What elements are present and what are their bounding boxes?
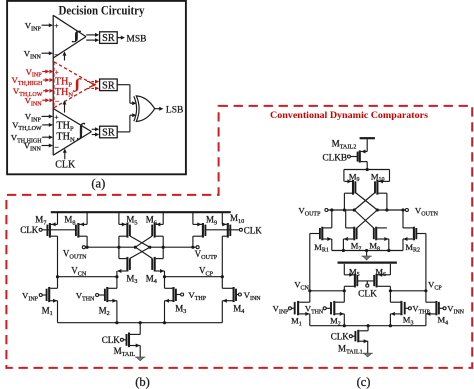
node CLK input M5/M6 gates bbox=[357, 281, 377, 300]
transistor M2 (c) (NMOS input V_THN) bbox=[326, 291, 344, 326]
node V_INN input U2 bbox=[25, 95, 54, 107]
svg-text:(b): (b) bbox=[135, 375, 150, 389]
comparator U3 (bottom, LSB path) bbox=[53, 109, 91, 156]
VDD bar input stage (c) bbox=[338, 262, 397, 264]
transistor M_TAIL2 (PMOS tail, CLKB) bbox=[350, 150, 367, 170]
svg-text:–: – bbox=[54, 142, 59, 151]
transistor M3 (NMOS input V_THP) bbox=[165, 277, 181, 323]
node V_INP input (b) bbox=[22, 290, 42, 302]
svg-text:CLK: CLK bbox=[358, 290, 377, 300]
wire U1 to U4 double arrows bbox=[86, 33, 99, 42]
svg-text:MSB: MSB bbox=[126, 34, 146, 44]
transistor M1 (NMOS input V_INP) bbox=[42, 277, 57, 323]
transistor M2 (NMOS input V_THN) bbox=[99, 277, 117, 323]
svg-text:SR: SR bbox=[102, 33, 115, 44]
transistor M7 (c) (NMOS latch) bbox=[343, 210, 356, 251]
comparator U2 (middle, red dashed) bbox=[54, 62, 97, 108]
node V_TH,LOW input U2 bbox=[13, 86, 54, 98]
svg-text:SR: SR bbox=[102, 128, 115, 139]
clock arrow into U2 bbox=[63, 100, 67, 112]
node V_INN input (b) bbox=[238, 290, 261, 302]
node V_INP input U3 bbox=[25, 112, 53, 124]
node V_CN rail (c) bbox=[294, 234, 346, 303]
transistor M1 (c) (NMOS input V_INP) bbox=[292, 301, 310, 326]
panel (a) Decision Circuitry box bbox=[7, 1, 186, 174]
node V_TH,LOW input U3 bbox=[12, 120, 53, 132]
wire common source node (c) bbox=[310, 324, 426, 327]
transistor M3 (c) (NMOS input V_THP) bbox=[390, 291, 408, 326]
XOR gate U7 bbox=[134, 96, 155, 122]
svg-text:LSB: LSB bbox=[166, 105, 183, 115]
node V_CN wire bbox=[56, 266, 119, 279]
wire U6 to XOR bbox=[117, 131, 130, 133]
svg-text:–: – bbox=[54, 49, 59, 58]
svg-text:CLK: CLK bbox=[331, 332, 350, 342]
wire input bus vertical line bbox=[52, 15, 54, 155]
svg-text:CLK: CLK bbox=[244, 225, 263, 235]
node V_INP input U1 bbox=[25, 20, 53, 32]
svg-text:CLKB: CLKB bbox=[322, 153, 347, 163]
svg-text:SR: SR bbox=[102, 80, 115, 91]
node V_OUTN wire (c) bbox=[377, 206, 438, 218]
ground symbol (b) bbox=[135, 356, 145, 358]
svg-text:CLK: CLK bbox=[20, 225, 39, 235]
node V_OUTN wire and terminal bbox=[63, 246, 135, 261]
node CLK input right (b) bbox=[205, 225, 262, 235]
node CLKB input bbox=[322, 153, 350, 163]
svg-text:+: + bbox=[54, 21, 58, 30]
node MSB output bbox=[117, 34, 146, 44]
ground symbol latch (c) bbox=[362, 251, 372, 261]
transistor M_R1 (NMOS reset) bbox=[310, 210, 332, 251]
ground symbol tail (c) bbox=[363, 352, 373, 354]
transistor M6 (c) (PMOS precharge V_CP) bbox=[374, 264, 390, 291]
transistor M_TAIL (NMOS tail, CLK) bbox=[123, 323, 140, 358]
comparator U1 (top, MSB path) bbox=[53, 15, 86, 58]
svg-text:(c): (c) bbox=[357, 375, 371, 389]
transistor M_TAIL1 (NMOS tail, CLK) bbox=[352, 326, 368, 354]
transistor M8 (c) (NMOS latch) bbox=[374, 227, 389, 251]
wire latch ground rail (c) bbox=[332, 249, 403, 252]
svg-text:CLK: CLK bbox=[102, 335, 121, 345]
node V_THP input (c) bbox=[408, 304, 430, 316]
svg-text:Conventional Dynamic Comparato: Conventional Dynamic Comparators bbox=[270, 110, 428, 121]
node CLK tail input (c) bbox=[331, 332, 353, 342]
transistor M_R2 (NMOS reset) bbox=[403, 210, 426, 251]
SR latch U4 (top) bbox=[100, 32, 118, 44]
node V_OUTP wire (c) bbox=[298, 206, 354, 218]
node V_TH,HIGH input U3 bbox=[11, 132, 53, 144]
svg-text:(a): (a) bbox=[91, 177, 105, 191]
node V_INN input U3 bbox=[24, 141, 53, 153]
node V_THN input (c) bbox=[305, 304, 326, 316]
VDD rail (b) bbox=[51, 211, 231, 213]
wire U2 to U5 double arrows red bbox=[87, 80, 99, 91]
node LSB output bbox=[155, 105, 184, 115]
node V_INP input U2 bbox=[26, 67, 54, 79]
cross-coupling X wires and diamond (b) bbox=[130, 236, 152, 258]
transistor M6 (PMOS cross-coupled) bbox=[152, 212, 163, 247]
transistor M5 (c) (PMOS precharge V_CN) bbox=[344, 264, 357, 291]
node CLK input left (b) bbox=[20, 225, 76, 235]
transistor M4 (NMOS cross-coupled) bbox=[152, 247, 164, 277]
red dashed boundary box bbox=[6, 106, 472, 368]
node V_INN input (c) bbox=[443, 304, 465, 316]
wire common source node (b) bbox=[58, 321, 223, 324]
node V_INN input U1 bbox=[24, 48, 53, 60]
node V_THN input (b) bbox=[76, 290, 99, 302]
transistor M10 (c) (PMOS latch) bbox=[375, 170, 390, 211]
node V_THP input (b) bbox=[181, 290, 207, 302]
transistor M10 (PMOS, precharge V_CP) bbox=[222, 212, 230, 276]
SR latch U5 (middle) bbox=[100, 79, 118, 91]
transistor M4 (c) (NMOS input V_INN) bbox=[426, 301, 443, 326]
transistor M4 (NMOS input V_INN) bbox=[222, 277, 238, 323]
VDD bar top (c) bbox=[360, 137, 375, 139]
SR latch U6 (bottom) bbox=[100, 126, 118, 138]
transistor M9 (c) (PMOS latch) bbox=[344, 170, 356, 211]
transistor M7 (PMOS, CLK precharge V_CN) bbox=[47, 212, 57, 276]
cross-coupling X wires and diamond (c) bbox=[353, 193, 379, 229]
transistor M5 (PMOS cross-coupled) bbox=[119, 212, 130, 247]
transistor M9 (PMOS, precharge V_OUTP) bbox=[193, 212, 206, 247]
svg-text:–: – bbox=[54, 97, 59, 105]
wire VDD stem to M_TAIL2 bbox=[366, 139, 368, 151]
svg-text:CLK: CLK bbox=[55, 160, 76, 171]
node V_INP input (c) bbox=[273, 304, 292, 316]
node V_CP rail (c) bbox=[389, 234, 443, 303]
clock arrow CLK into U3 bbox=[63, 149, 67, 160]
transistor M8 (PMOS, CLK precharge V_OUTN) bbox=[76, 212, 87, 247]
transistor M3 (NMOS cross-coupled) bbox=[117, 247, 130, 277]
clock arrow into U1 bbox=[63, 51, 67, 60]
wire U3 to U6 double arrows bbox=[92, 127, 100, 136]
wire U5 to XOR bbox=[117, 84, 130, 86]
wire latch tail node (c) bbox=[344, 168, 390, 171]
svg-text:Decision Circuitry: Decision Circuitry bbox=[59, 3, 145, 17]
node V_OUTP wire and terminal bbox=[150, 246, 218, 261]
node V_CP wire bbox=[163, 266, 224, 279]
node CLK tail input (b) bbox=[102, 335, 124, 345]
node V_TH,HIGH input U2 bbox=[12, 75, 54, 87]
svg-text:+: + bbox=[55, 68, 59, 76]
